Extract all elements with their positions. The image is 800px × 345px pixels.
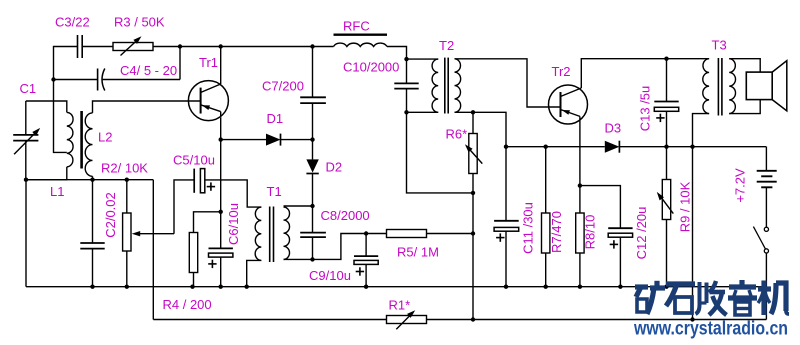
svg-text:RFC: RFC bbox=[343, 19, 370, 34]
svg-text:R2/ 10K: R2/ 10K bbox=[101, 161, 148, 176]
svg-text:C9/10u: C9/10u bbox=[309, 268, 351, 283]
svg-text:C6/10u: C6/10u bbox=[226, 203, 241, 245]
svg-text:C1: C1 bbox=[20, 81, 37, 96]
svg-text:C11 /30u: C11 /30u bbox=[521, 202, 536, 254]
svg-text:D2: D2 bbox=[326, 160, 343, 175]
svg-text:Tr1: Tr1 bbox=[199, 55, 218, 70]
svg-text:C12 /20u: C12 /20u bbox=[634, 207, 649, 260]
svg-text:R9 / 10K: R9 / 10K bbox=[678, 181, 693, 232]
svg-text:R1*: R1* bbox=[389, 298, 411, 313]
svg-text:T3: T3 bbox=[712, 38, 727, 53]
svg-text:C4/ 5 - 20: C4/ 5 - 20 bbox=[120, 63, 177, 78]
svg-text:R4 / 200: R4 / 200 bbox=[163, 297, 212, 312]
svg-text:R7/470: R7/470 bbox=[549, 211, 564, 253]
svg-text:C13 /5u: C13 /5u bbox=[638, 86, 653, 132]
svg-text:C2/0.02: C2/0.02 bbox=[103, 192, 118, 238]
svg-text:C7/200: C7/200 bbox=[262, 79, 304, 94]
svg-text:C5/10u: C5/10u bbox=[173, 153, 215, 168]
svg-text:T2: T2 bbox=[439, 38, 454, 53]
svg-text:C10/2000: C10/2000 bbox=[343, 60, 399, 75]
svg-text:D1: D1 bbox=[267, 111, 284, 126]
svg-text:R8/10: R8/10 bbox=[583, 215, 598, 250]
svg-text:C8/2000: C8/2000 bbox=[321, 208, 370, 223]
svg-text:L2: L2 bbox=[98, 130, 112, 145]
svg-text:R3 / 50K: R3 / 50K bbox=[114, 15, 165, 30]
svg-text:+7.2V: +7.2V bbox=[733, 168, 748, 203]
svg-text:R5/ 1M: R5/ 1M bbox=[397, 245, 439, 260]
svg-text:T1: T1 bbox=[267, 184, 282, 199]
svg-text:D3: D3 bbox=[605, 121, 622, 136]
svg-text:L1: L1 bbox=[50, 184, 64, 199]
svg-text:www.crystalradio.cn: www.crystalradio.cn bbox=[633, 319, 788, 340]
svg-text:R6*: R6* bbox=[446, 127, 468, 142]
svg-text:C3/22: C3/22 bbox=[55, 15, 90, 30]
svg-text:Tr2: Tr2 bbox=[552, 64, 571, 79]
